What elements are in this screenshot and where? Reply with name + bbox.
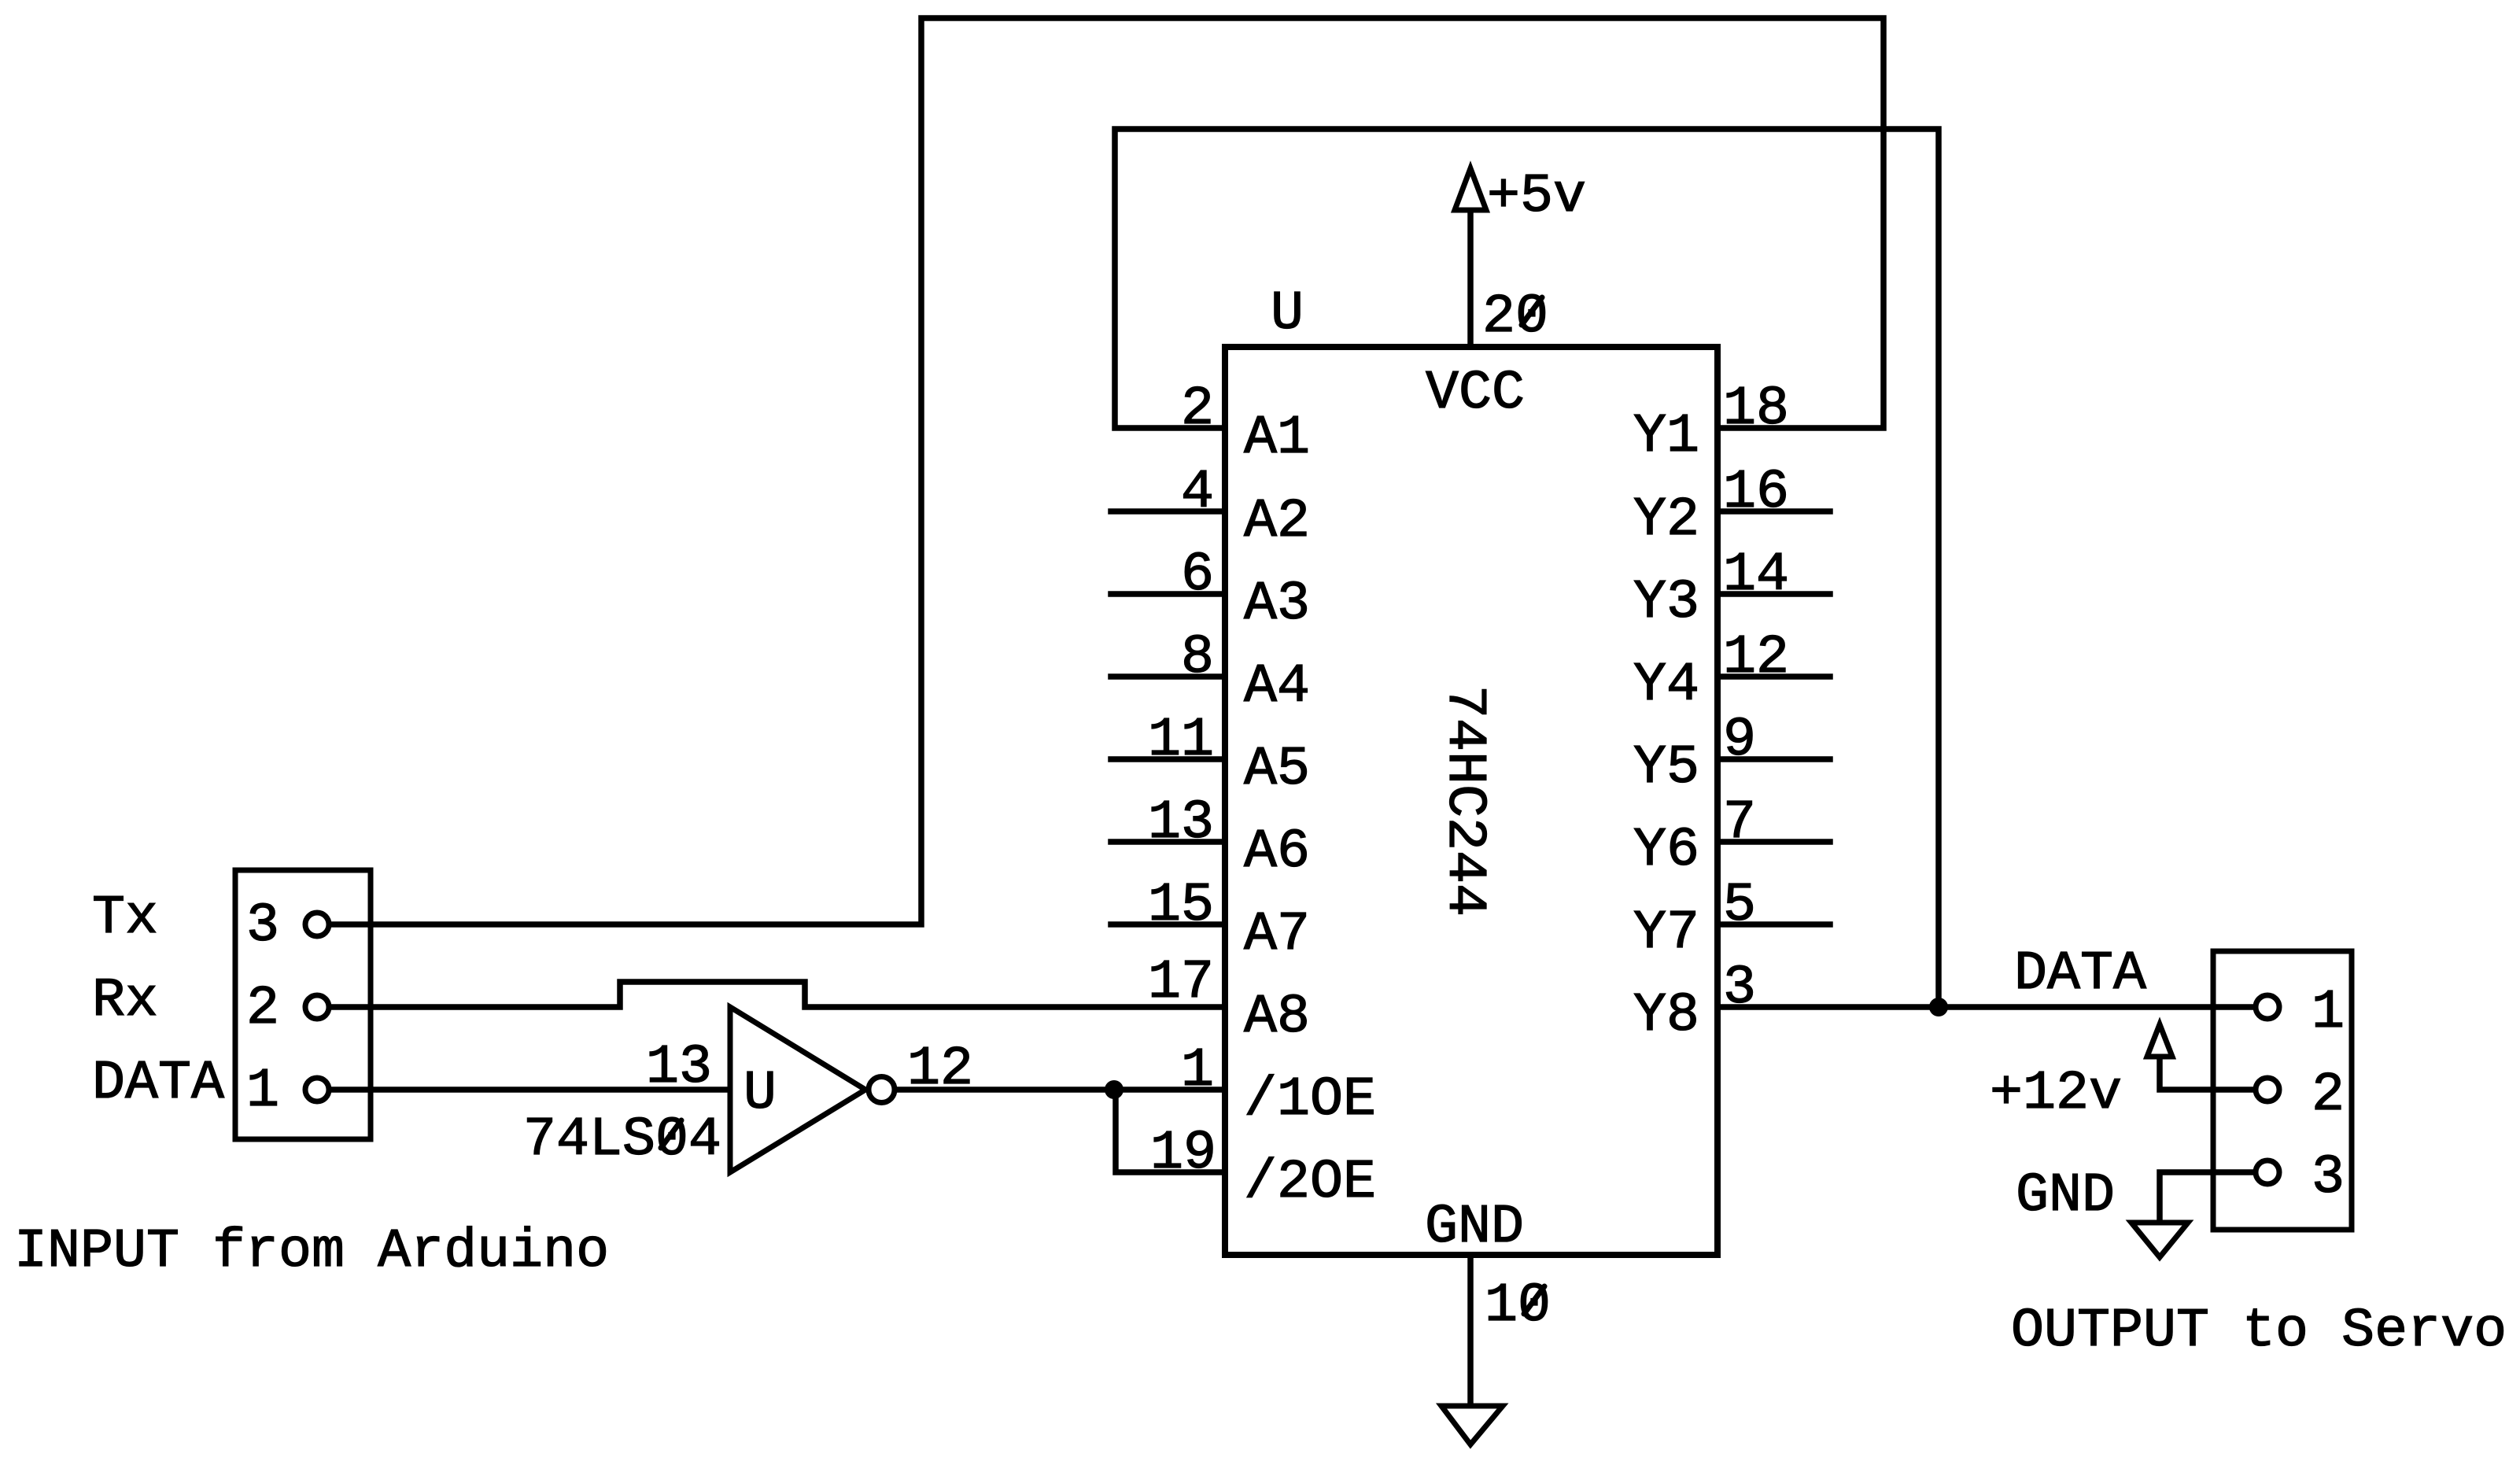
svg-text:Tx: Tx [92, 887, 158, 950]
pin circle J1-3 [305, 913, 329, 936]
svg-text:7: 7 [1723, 792, 1756, 854]
svg-text:1: 1 [246, 1061, 279, 1123]
wire A7 pin 15 stub [1111, 921, 1225, 928]
slashed zero in 20 [1522, 297, 1542, 325]
connector J1 INPUT body [235, 870, 371, 1139]
svg-text:2: 2 [1181, 378, 1214, 441]
wire Y2 pin 16 stub [1718, 508, 1830, 515]
svg-text:12: 12 [907, 1039, 973, 1101]
wire +12v to connector J2 pin 2 [2160, 1057, 2253, 1090]
svg-text:/1OE: /1OE [1244, 1069, 1376, 1131]
wire A3 pin 6 stub [1111, 591, 1225, 597]
svg-text:1: 1 [1181, 1040, 1214, 1102]
wire Y8 DATA out net: Y8 pin 3 to output connector J2 pin 1 [1718, 1004, 2253, 1010]
wire A6 pin 13 stub [1111, 839, 1225, 845]
wire Y4 pin 12 stub [1718, 673, 1830, 680]
wire A1 loopback net: A1 pin 2 up over chip to Y8 output junction [1115, 129, 1939, 1007]
svg-text:12: 12 [1723, 627, 1789, 689]
slashed zero in 10 [1524, 1286, 1544, 1314]
svg-text:3: 3 [246, 895, 279, 957]
svg-text:3: 3 [1723, 957, 1756, 1020]
svg-text:9: 9 [1723, 710, 1756, 772]
svg-text:Y5: Y5 [1633, 737, 1699, 799]
svg-text:16: 16 [1723, 462, 1789, 524]
wire /2OE branch from junction down to pin 19 [1116, 1090, 1225, 1172]
wire inverter output to /1OE pin 1 [896, 1087, 1225, 1093]
junction dot at /1OE-/2OE branch [1105, 1080, 1123, 1099]
svg-text:Y1: Y1 [1633, 406, 1699, 468]
pin circle J1-2 [305, 995, 329, 1019]
svg-text:OUTPUT to Servo: OUTPUT to Servo [2011, 1301, 2507, 1363]
wire Tx net: connector J1 pin3 up over the top to Y1 pin 18 [331, 18, 1884, 924]
svg-text:A1: A1 [1244, 408, 1310, 470]
wire A4 pin 8 stub [1111, 673, 1225, 680]
slashed zero in 74LS04 [661, 1120, 681, 1148]
svg-text:14: 14 [1723, 544, 1789, 607]
svg-text:8: 8 [1181, 627, 1214, 689]
svg-text:U: U [1271, 283, 1304, 345]
pin circle J2-3 [2256, 1160, 2279, 1184]
wire DATA input net: connector J1 pin1 to inverter input [331, 1087, 728, 1093]
wire Y6 pin 7 stub [1718, 839, 1830, 845]
wire Y5 pin 9 stub [1718, 756, 1830, 762]
svg-text:13: 13 [646, 1037, 712, 1099]
inverter output bubble [869, 1077, 895, 1103]
svg-text:INPUT from Arduino: INPUT from Arduino [14, 1221, 609, 1283]
svg-text:A5: A5 [1244, 739, 1310, 801]
svg-text:2: 2 [2312, 1064, 2345, 1127]
IC U 74HC244 body [1225, 347, 1718, 1255]
svg-text:3: 3 [2312, 1147, 2345, 1209]
svg-text:GND: GND [2016, 1165, 2115, 1227]
svg-text:74HC244: 74HC244 [1433, 685, 1495, 917]
svg-text:+12v: +12v [1990, 1063, 2122, 1125]
svg-text:Y4: Y4 [1633, 655, 1699, 717]
svg-text:DATA: DATA [92, 1053, 224, 1115]
svg-text:Y3: Y3 [1633, 572, 1699, 634]
pin circle J1-1 [305, 1078, 329, 1101]
inverter U 74LS04 triangle [730, 1007, 865, 1172]
power +5v arrow [1455, 168, 1486, 210]
power +12v arrow [2147, 1024, 2172, 1057]
svg-text:1: 1 [2312, 982, 2345, 1044]
svg-text:A2: A2 [1244, 491, 1310, 553]
svg-text:Rx: Rx [92, 970, 158, 1032]
svg-text:13: 13 [1148, 792, 1214, 854]
svg-text:GND: GND [1425, 1197, 1524, 1259]
svg-text:6: 6 [1181, 544, 1214, 607]
ground symbol at J2-3 [2131, 1223, 2188, 1257]
svg-text:/2OE: /2OE [1244, 1152, 1376, 1214]
svg-text:A4: A4 [1244, 656, 1310, 718]
svg-text:Y6: Y6 [1633, 820, 1699, 882]
wire Rx net: connector J1 pin2 to A8 pin 17 with bump [331, 982, 1225, 1007]
svg-text:A3: A3 [1244, 574, 1310, 636]
svg-text:VCC: VCC [1426, 363, 1525, 425]
svg-text:15: 15 [1148, 875, 1214, 937]
svg-text:DATA: DATA [2014, 943, 2146, 1005]
svg-text:74LS04: 74LS04 [523, 1109, 721, 1171]
wire Y7 pin 5 stub [1718, 921, 1830, 928]
wire A5 pin 11 stub [1111, 756, 1225, 762]
svg-text:2: 2 [246, 978, 279, 1040]
svg-text:10: 10 [1485, 1275, 1551, 1337]
svg-text:U: U [743, 1063, 777, 1125]
svg-text:5: 5 [1723, 875, 1756, 937]
connector J2 OUTPUT body [2213, 951, 2352, 1230]
svg-text:19: 19 [1150, 1123, 1216, 1185]
svg-text:Y8: Y8 [1633, 985, 1699, 1047]
svg-text:4: 4 [1181, 462, 1214, 524]
svg-text:Y7: Y7 [1633, 902, 1699, 965]
svg-text:20: 20 [1482, 286, 1548, 349]
svg-text:+5v: +5v [1487, 166, 1586, 228]
wire Y3 pin 14 stub [1718, 591, 1830, 597]
svg-text:A7: A7 [1244, 904, 1310, 966]
wire ground to connector J2 pin 3 [2160, 1172, 2253, 1223]
svg-text:A6: A6 [1244, 821, 1310, 884]
pin circle J2-1 [2256, 995, 2279, 1019]
pin circle J2-2 [2256, 1078, 2279, 1101]
svg-text:A8: A8 [1244, 987, 1310, 1049]
wire VCC pin 20 to +5v [1467, 210, 1474, 347]
svg-text:11: 11 [1148, 710, 1214, 772]
junction dot at Y8-DATA node [1929, 998, 1948, 1016]
wire GND pin 10 to ground [1467, 1255, 1474, 1406]
svg-text:18: 18 [1723, 378, 1789, 441]
wire A2 pin 4 stub [1111, 508, 1225, 515]
svg-text:Y2: Y2 [1633, 489, 1699, 552]
ground symbol at pin 10 [1441, 1406, 1503, 1444]
svg-text:17: 17 [1148, 952, 1214, 1014]
